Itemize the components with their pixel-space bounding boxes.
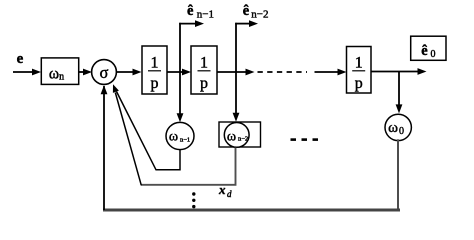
svg-text:ê: ê [187,3,194,19]
svg-text:0: 0 [431,49,436,60]
svg-text:p: p [151,75,159,92]
svg-text:0: 0 [399,126,404,137]
svg-text:e: e [17,51,24,67]
svg-text:ê: ê [421,43,428,59]
svg-text:x: x [218,182,226,197]
svg-text:p: p [200,75,208,92]
svg-text:d: d [227,189,232,199]
svg-text:n−2: n−2 [251,9,268,21]
svg-text:1: 1 [151,55,159,72]
svg-text:ω: ω [169,129,178,144]
svg-text:p: p [355,75,363,92]
svg-text:σ: σ [100,63,109,82]
svg-text:ê: ê [243,3,250,19]
svg-text:ω: ω [227,129,236,144]
svg-text:n−2: n−2 [238,136,248,143]
svg-text:n−1: n−1 [197,9,214,21]
svg-text:1: 1 [200,55,208,72]
svg-text:ω: ω [388,120,398,136]
svg-text:n−1: n−1 [180,137,190,144]
svg-text:1: 1 [355,55,363,72]
